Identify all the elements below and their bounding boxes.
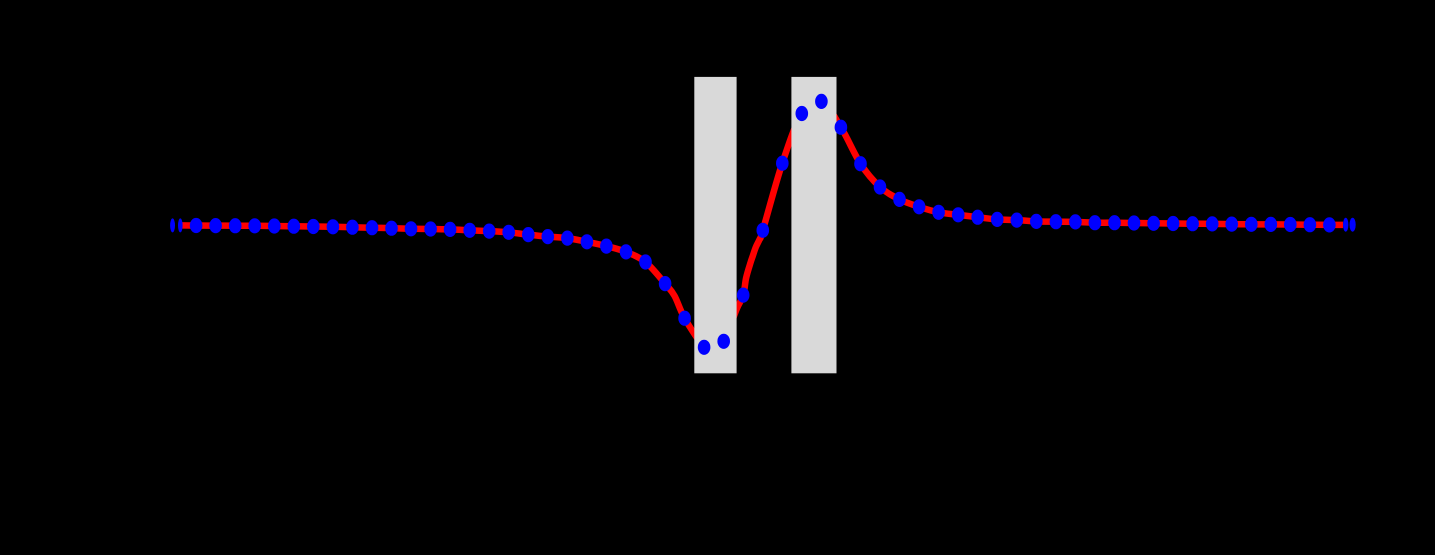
right end cap marker 1 <box>1343 218 1348 232</box>
blue data point markers <box>190 94 1336 355</box>
red dashed dispersion curve <box>179 101 1343 352</box>
gray vertical band 1 (left absorption region) <box>694 77 736 373</box>
right end cap marker 2 <box>1350 218 1356 232</box>
left end cap marker 1 <box>170 218 175 232</box>
gray vertical band 2 (right absorption region) <box>791 77 836 373</box>
left end cap marker 2 <box>178 218 183 232</box>
